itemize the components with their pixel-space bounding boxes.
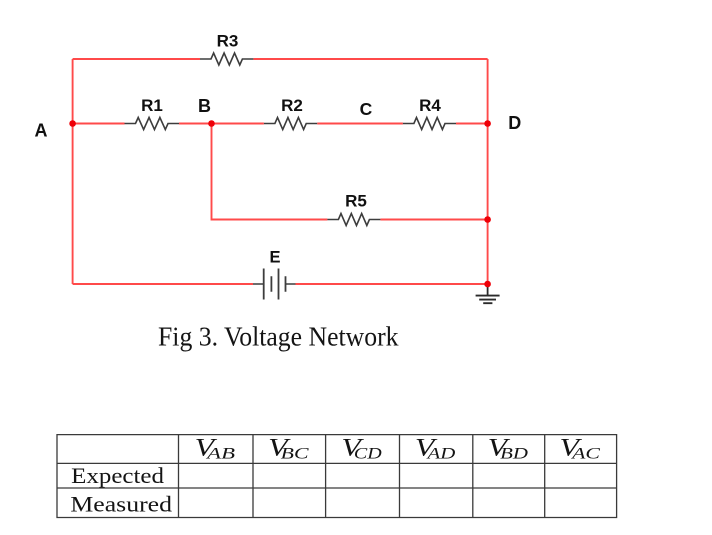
svg-text:BD: BD [500,445,528,462]
svg-text:R2: R2 [281,96,303,115]
node D [484,113,521,133]
table header VCD [341,435,382,463]
battery E [253,249,296,300]
node B [198,96,215,127]
svg-text:AB: AB [206,445,236,462]
svg-text:E: E [269,249,280,267]
svg-text:B: B [198,96,211,116]
svg-text:CD: CD [354,445,382,462]
table header VBC [268,435,309,463]
ground [476,284,500,303]
svg-text:A: A [35,121,48,141]
svg-text:C: C [360,99,373,119]
svg-text:R4: R4 [419,96,441,115]
svg-text:R3: R3 [217,31,239,50]
svg-text:Expected: Expected [71,463,164,488]
resistor R4 [403,96,456,129]
wire: B down to R5 branch [212,124,488,220]
svg-text:AC: AC [571,445,601,462]
wire: right vertical branch D [487,59,489,284]
node C [360,99,373,119]
resistor R1 [125,96,180,129]
node A [35,120,76,140]
table header VBD [488,435,529,463]
table header VAC [560,435,601,463]
junction: R5 to right branch [484,216,491,223]
svg-text:Measured: Measured [70,492,172,517]
table header VAD [415,435,456,463]
wire: middle row A-B-C-D [73,123,488,125]
wire: left vertical branch A [72,59,74,284]
table grid [56,434,617,518]
resistor R2 [264,96,317,129]
svg-text:R5: R5 [345,192,367,211]
resistor R3 [200,31,253,65]
wire: top branch (R3 row) [73,58,488,60]
svg-text:D: D [508,113,521,133]
resistor R5 [327,192,380,226]
table header VAB [195,435,236,463]
svg-text:R1: R1 [141,96,163,115]
wire: bottom branch with battery [73,283,488,285]
svg-text:AD: AD [426,445,456,462]
junction: bottom-right at ground [484,281,491,288]
svg-text:BC: BC [281,445,309,462]
svg-text:Fig 3. Voltage Network: Fig 3. Voltage Network [158,321,399,351]
